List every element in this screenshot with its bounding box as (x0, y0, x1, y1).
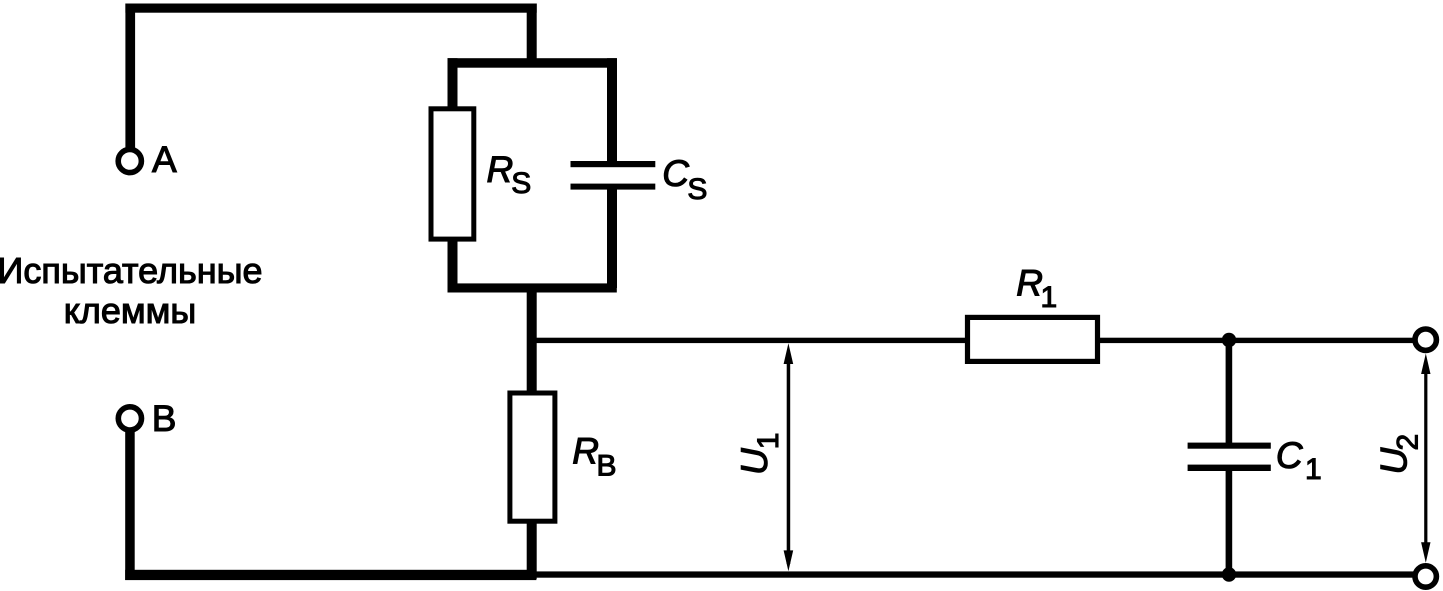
svg-text:1: 1 (1305, 453, 1322, 486)
svg-text:B: B (597, 450, 617, 483)
svg-text:R: R (572, 431, 599, 472)
svg-text:1: 1 (752, 433, 785, 450)
svg-text:C: C (1276, 435, 1303, 476)
svg-text:S: S (687, 173, 707, 206)
svg-text:клеммы: клеммы (64, 290, 197, 331)
svg-text:Испытательные: Испытательные (0, 250, 263, 291)
svg-text:2: 2 (1392, 434, 1425, 451)
svg-text:A: A (152, 139, 177, 180)
svg-text:S: S (511, 167, 531, 200)
svg-text:1: 1 (1041, 281, 1058, 314)
svg-text:U: U (1374, 448, 1415, 475)
svg-text:U: U (734, 448, 775, 475)
svg-text:R: R (1016, 263, 1043, 304)
svg-text:B: B (152, 398, 177, 439)
svg-text:R: R (487, 149, 514, 190)
svg-text:C: C (662, 153, 689, 194)
